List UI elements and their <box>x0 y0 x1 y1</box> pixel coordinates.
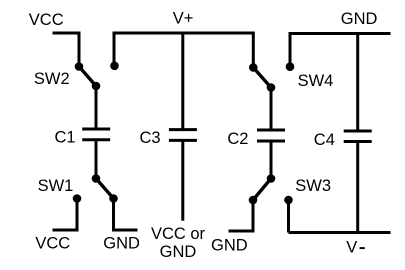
svg-text:GND: GND <box>211 237 248 255</box>
wire SW1 VCC contact stub <box>53 199 78 231</box>
SW4 contact junction GND side <box>286 62 295 71</box>
capacitor C4 plates <box>344 131 372 142</box>
capacitor C1 plates <box>82 129 110 140</box>
wire VCC stub to SW2 contact <box>53 33 80 67</box>
SW1 pole junction <box>92 174 101 183</box>
SW2 pole junction <box>92 82 101 91</box>
SW4 pole junction <box>267 83 276 92</box>
wire C4 bottom lead <box>356 142 359 233</box>
wire SW4 pole to C2 top <box>270 88 273 131</box>
svg-text:C4: C4 <box>314 131 335 149</box>
svg-text:SW2: SW2 <box>34 70 70 88</box>
svg-text:C3: C3 <box>140 129 161 147</box>
svg-text:GND: GND <box>103 235 140 253</box>
switch SW2 arm <box>79 67 96 87</box>
SW4 contact junction V+ side <box>249 63 258 72</box>
svg-text:C1: C1 <box>55 129 76 147</box>
svg-text:SW4: SW4 <box>298 72 334 90</box>
SW1 contact junction GND side <box>109 194 118 203</box>
wire SW3 GND contact stub <box>229 200 254 231</box>
net label V- dash <box>360 247 365 249</box>
wire C3 top lead <box>181 33 184 130</box>
capacitor C3 plates <box>169 130 197 141</box>
wire V+ rail with end drops <box>114 33 253 68</box>
switch SW3 arm <box>253 179 271 201</box>
wire C4 top lead <box>356 34 359 132</box>
wire GND rail with left drop <box>290 34 391 67</box>
svg-text:VCC: VCC <box>29 11 64 29</box>
SW3 contact junction V- side <box>284 196 293 205</box>
svg-text:C2: C2 <box>227 130 248 148</box>
svg-text:V: V <box>346 238 357 256</box>
wire C3 bottom lead <box>181 140 184 220</box>
svg-text:GND: GND <box>160 243 197 261</box>
svg-text:V+: V+ <box>173 10 194 28</box>
svg-text:VCC or: VCC or <box>151 225 206 243</box>
svg-text:SW3: SW3 <box>295 177 331 195</box>
SW2 contact junction V+ side <box>110 62 119 71</box>
wire SW3 contact to V- rail <box>287 200 290 233</box>
switch SW1 arm <box>96 179 114 199</box>
SW2 contact junction VCC side <box>75 62 84 71</box>
SW3 contact junction GND side <box>249 196 258 205</box>
svg-text:GND: GND <box>341 10 378 28</box>
SW1 contact junction VCC side <box>73 194 82 203</box>
wire SW2 pole to C1 top <box>95 86 98 129</box>
svg-text:SW1: SW1 <box>38 177 74 195</box>
SW3 pole junction <box>267 174 276 183</box>
wire SW1 GND contact stub <box>114 199 138 231</box>
wire V- rail <box>289 231 391 234</box>
svg-text:VCC: VCC <box>35 235 70 253</box>
capacitor C2 plates <box>257 130 285 141</box>
wire C2 bottom to SW3 pole <box>270 141 273 179</box>
switch SW4 arm <box>253 68 271 88</box>
wire C1 bottom to SW1 pole <box>95 140 98 179</box>
